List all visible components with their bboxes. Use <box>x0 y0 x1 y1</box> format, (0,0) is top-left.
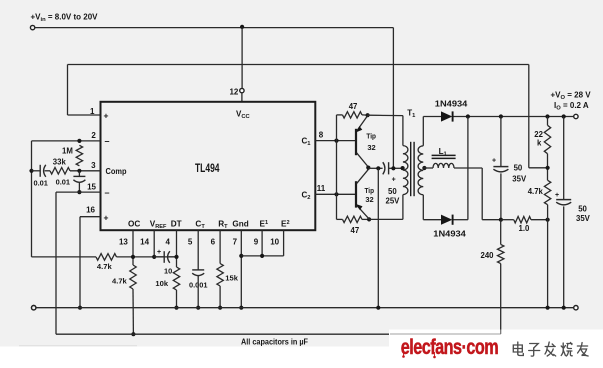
wire secondary bottom lead <box>422 195 424 220</box>
wire 0.001 to ground bus <box>197 276 199 308</box>
junction cap2 at ground bus <box>562 306 566 310</box>
wire cap to 33k <box>45 170 50 172</box>
wire pin 14 lead <box>153 230 155 257</box>
svg-text:11: 11 <box>317 184 326 193</box>
wire center tap to L1 <box>423 167 433 169</box>
svg-text:+: + <box>555 192 559 199</box>
svg-text:35V: 35V <box>576 214 591 223</box>
svg-text:–: – <box>105 136 110 146</box>
svg-text:1: 1 <box>90 107 95 116</box>
wire collectors to cap <box>368 167 382 169</box>
svg-text:16: 16 <box>86 206 95 215</box>
svg-text:22: 22 <box>534 130 543 139</box>
wire primary top lead <box>402 116 404 146</box>
wire L1 output to cap node <box>482 219 501 221</box>
svg-text:3: 3 <box>91 161 96 170</box>
svg-text:–: – <box>105 187 110 197</box>
svg-text:15k: 15k <box>225 274 238 283</box>
junction 22k top <box>545 114 549 118</box>
wire pin3 to cap <box>78 171 80 176</box>
wire 240 corner faded <box>500 332 503 335</box>
junction pin16 at ground bus <box>78 306 82 310</box>
svg-text:10: 10 <box>270 238 279 247</box>
junction pin 15 node <box>77 190 81 194</box>
watermark elecfans.com <box>401 336 498 360</box>
wire secondary bottom to diode <box>423 219 441 221</box>
watermark char zi <box>529 344 540 357</box>
junction top rail to pin 12 <box>240 25 244 29</box>
svg-text:4.7k: 4.7k <box>528 187 544 196</box>
svg-text:47: 47 <box>349 102 358 111</box>
wire to 0.01 cap <box>32 170 40 172</box>
wire pin 1 <box>68 114 101 116</box>
svg-text:1M: 1M <box>62 146 73 155</box>
junction 0.001 at ground bus <box>196 306 200 310</box>
wire to 47 top <box>337 114 343 116</box>
wire pin 9 lead <box>261 230 263 256</box>
watermark char shao <box>561 343 572 357</box>
ground terminal left <box>32 306 36 310</box>
svg-text:+: + <box>104 111 109 121</box>
junction pin 11 <box>334 192 338 196</box>
wire node A vertical <box>31 141 33 257</box>
junction 1.0/4.7k node <box>546 218 550 222</box>
junction pin 2 node <box>77 139 81 143</box>
wire feedback to divider node <box>529 167 548 169</box>
wire pin 2 <box>32 140 101 142</box>
svg-text:All capacitors in µF: All capacitors in µF <box>241 338 308 347</box>
svg-text:9: 9 <box>254 238 259 247</box>
pin 12 terminal circle <box>240 88 244 92</box>
svg-text:1N4934: 1N4934 <box>433 230 466 239</box>
junction pin 13 node <box>131 255 135 259</box>
svg-text:0.01: 0.01 <box>56 178 70 187</box>
watermark red dots <box>402 355 405 358</box>
wire 240 stub over watermark <box>500 330 502 335</box>
wire +Vin rail down to primary CT node <box>392 28 394 169</box>
svg-text:4: 4 <box>165 238 170 247</box>
junction pin13 branch at feedback line <box>131 332 135 336</box>
svg-text:+: + <box>392 176 396 183</box>
svg-text:Tip: Tip <box>365 186 375 195</box>
svg-text:15: 15 <box>87 182 96 191</box>
capacitor 50uF 25V <box>383 162 385 174</box>
wire 15k to ground bus <box>219 286 221 308</box>
junction divider feedback node <box>546 166 550 170</box>
wire cap bottom to node <box>500 173 502 219</box>
wire 1.0 to divider <box>531 219 548 221</box>
junction Q2 emitter node <box>367 217 371 221</box>
svg-text:32: 32 <box>365 195 373 204</box>
svg-text:13: 13 <box>119 238 128 247</box>
wire pin 13 branch to feedback line <box>132 289 134 334</box>
wire collector node down to ground bus <box>377 168 379 307</box>
wire lower feedback line faded segment <box>390 333 501 335</box>
svg-text:Tip: Tip <box>366 132 376 141</box>
wire L1 output <box>454 167 482 169</box>
junction pin 9 <box>260 254 264 258</box>
watermark char dian <box>513 342 523 356</box>
transformer T1 secondary winding <box>418 146 423 195</box>
op-amp U1 TL494 IC body <box>101 102 316 230</box>
wire node to 1.0 <box>501 219 514 221</box>
svg-text:35V: 35V <box>512 174 527 183</box>
wire pin 7 Gnd lead <box>240 230 242 308</box>
ground terminal left fix fill <box>32 306 36 310</box>
wire pin 6 lead <box>219 230 221 263</box>
wire node to 240 <box>500 220 502 245</box>
resistor 47 (Q2 base-emitter) <box>343 216 363 222</box>
wire output to 22k <box>547 117 549 126</box>
wire pins 9-10 tie <box>241 255 283 257</box>
resistor 1.0 <box>514 217 531 223</box>
junction cap 50/35 top <box>499 114 503 118</box>
wire pin 13 lead <box>132 230 134 265</box>
wire primary bottom lead <box>402 195 404 220</box>
wire to 10uF cap <box>154 256 163 258</box>
wire L1 output down <box>481 168 483 220</box>
wire 240 to lower feedback line <box>500 264 502 334</box>
junction pin 7 at ground bus <box>239 306 243 310</box>
svg-text:12: 12 <box>229 87 238 96</box>
junction pin 4 node <box>174 255 178 259</box>
resistor 4.7k horizontal (pin 13 to node A) <box>96 254 117 261</box>
wire pin 16 down to ground bus <box>79 217 81 308</box>
svg-text:+: + <box>492 157 496 164</box>
junction collector node to ground drop <box>376 166 380 170</box>
wire output to cap top <box>500 117 502 167</box>
wire secondary top to diode <box>423 116 441 118</box>
wire pin 10 lead <box>283 230 285 256</box>
wire cap to +Vin and primary CT <box>389 167 403 169</box>
wire ground bus <box>36 307 574 309</box>
resistor 4.7k (divider lower) <box>544 180 550 204</box>
junction 10k at ground bus <box>174 306 178 310</box>
resistor RT 15k (pin 6) <box>217 264 223 287</box>
junction at ground bus <box>376 306 380 310</box>
wire 47 to Q2 emitter <box>362 218 369 220</box>
svg-text:7: 7 <box>233 238 238 247</box>
svg-text:OC: OC <box>128 220 140 229</box>
svg-text:0.01: 0.01 <box>34 179 48 188</box>
svg-text:4.7k: 4.7k <box>97 262 113 271</box>
svg-text:Gnd: Gnd <box>232 220 248 229</box>
scan bottom faint edge <box>19 345 137 347</box>
svg-text:10: 10 <box>164 267 172 276</box>
svg-text:240: 240 <box>481 251 495 260</box>
svg-text:Comp: Comp <box>106 167 127 176</box>
svg-text:50: 50 <box>514 164 523 173</box>
wire node A to 4.7k <box>32 256 97 258</box>
svg-text:+: + <box>157 249 161 256</box>
svg-text:50: 50 <box>578 205 587 214</box>
wire feedback down right side <box>528 65 530 168</box>
svg-text:1.0: 1.0 <box>519 224 531 233</box>
svg-text:10k: 10k <box>155 279 168 288</box>
wire pin 15 down to feedback line <box>55 192 57 334</box>
svg-text:6: 6 <box>211 238 216 247</box>
junction Q1 emitter node <box>366 113 370 117</box>
resistor 240 <box>498 244 504 263</box>
resistor 1M (pin 2 to pin 3) <box>76 145 82 166</box>
junction pin 3 node <box>77 169 81 173</box>
junction cap1/L1/240/1.0 node <box>499 218 503 222</box>
junction bottom diode return <box>466 114 470 118</box>
junction 15k at ground bus <box>218 306 222 310</box>
wire pin 4 lead <box>176 230 178 267</box>
svg-text:TL494: TL494 <box>195 161 220 175</box>
wire Q2 emitter to primary bottom <box>369 218 403 220</box>
watermark char fa <box>545 342 556 356</box>
wire pin 11 C2 to Q2 base <box>315 193 356 195</box>
watermark char you <box>577 343 588 357</box>
wire output drive vertical <box>336 115 338 219</box>
capacitor CT 0.001 uF (pin 5) <box>192 269 204 271</box>
svg-text:1N4934: 1N4934 <box>435 99 468 108</box>
wire pin 3 Comp <box>70 170 101 172</box>
junction node A capacitor tap <box>29 169 33 173</box>
svg-text:5: 5 <box>188 238 193 247</box>
junction pin 14 node <box>152 255 156 259</box>
junction +Vin rail at cap node <box>391 166 395 170</box>
wire 47 to Q1 emitter <box>362 114 368 116</box>
wire cap2 to ground bus <box>563 206 565 307</box>
svg-text:14: 14 <box>140 238 149 247</box>
junction Q1 Q2 collectors <box>366 166 370 170</box>
wire secondary top lead <box>422 117 424 146</box>
diode D1 1N4934 top <box>441 111 452 121</box>
wire pin 12 stub <box>241 93 243 102</box>
wire pin 15 <box>56 191 101 193</box>
wire 22k to divider node <box>547 154 549 181</box>
wire to 47 bottom <box>337 218 343 220</box>
resistor 33k <box>50 168 70 175</box>
wire bottom diode up to output line <box>467 117 469 220</box>
transformer T1 primary winding <box>403 146 408 195</box>
svg-text:4.7k: 4.7k <box>112 277 128 286</box>
wire 10k to ground bus <box>176 290 178 308</box>
wire pin 5 lead <box>197 230 199 270</box>
svg-text:elecfans·com: elecfans·com <box>401 336 498 360</box>
wire lower feedback line <box>56 333 390 335</box>
svg-text:2: 2 <box>91 131 96 140</box>
wire bottom diode out <box>454 219 468 221</box>
junction output cap top <box>562 114 566 118</box>
capacitor 0.01 uF (left, series with 33k) <box>39 165 41 177</box>
resistor 4.7k vertical (pin 13) <box>130 265 136 289</box>
junction primary center tap <box>401 166 405 170</box>
wire pins 13-14-4 node line <box>117 256 177 258</box>
junction secondary center tap <box>422 166 426 170</box>
output +Vo terminal <box>574 114 578 118</box>
watermark white box <box>389 330 603 368</box>
output return terminal <box>574 306 578 310</box>
svg-text:32: 32 <box>367 143 375 152</box>
wire Q1 emitter to primary top <box>368 114 403 116</box>
svg-text:25V: 25V <box>386 196 401 205</box>
resistor 10k (pin 4) <box>173 267 179 290</box>
transistor Q1 Tip 32 <box>355 129 357 155</box>
wire 4.7k to ground bus <box>547 205 549 308</box>
wire top +Vin rail <box>35 27 393 29</box>
resistor 47 (Q1 base-emitter) <box>343 112 363 118</box>
+Vin input terminal <box>30 25 34 29</box>
transformer T1 core <box>410 142 412 196</box>
wire pin 8 C1 to Q1 base <box>315 140 356 142</box>
svg-text:50: 50 <box>388 187 397 196</box>
diode D2 1N4934 bottom <box>441 215 452 225</box>
wire pin 16 <box>80 216 101 218</box>
wire output top line <box>454 116 574 118</box>
wire output to cap2 <box>563 117 565 200</box>
wire cap to pin 4 lead <box>169 256 177 258</box>
svg-text:k: k <box>537 139 542 148</box>
svg-text:33k: 33k <box>53 157 67 166</box>
junction pin 7 to emitters <box>239 254 243 258</box>
svg-text:DT: DT <box>171 220 182 229</box>
wire cap to pin 15 line <box>78 182 80 192</box>
wire feedback rail <box>68 64 529 66</box>
svg-text:47: 47 <box>351 226 360 235</box>
junction pin 8 <box>334 139 338 143</box>
svg-text:+: + <box>104 212 109 222</box>
wire feedback down to pin 1 <box>67 65 69 116</box>
wire to pin 12 <box>241 28 243 89</box>
transistor Q2 Tip 32 <box>355 181 357 207</box>
junction 4.7k at ground bus <box>546 306 550 310</box>
svg-text:8: 8 <box>319 131 324 140</box>
wire lower feedback line faded under watermark <box>390 333 501 335</box>
